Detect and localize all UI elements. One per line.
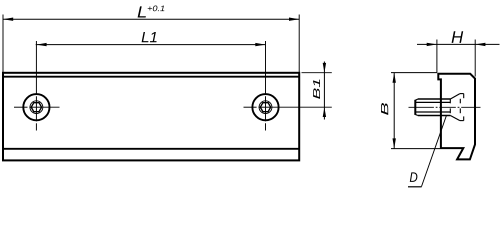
B extension line top [391,72,437,74]
top chamfer edge line [3,76,299,78]
screw head right face bottom segment [463,116,465,120]
L dimension line [3,18,299,20]
hole 2 hex socket [260,103,270,112]
H arrow right (outside, pointing left) [475,43,485,46]
L arrow left [3,18,13,21]
bottom step edge line [3,148,299,150]
B1 extension line top [302,72,332,74]
B arrow bottom (inside, pointing down) [393,138,396,148]
hex socket far wall top [459,99,461,104]
screw thread minor lines [415,101,450,103]
hole 1 vertical centerline / L1 extension [35,41,37,131]
D leader line [422,116,447,187]
L tolerance +0.1 [148,5,165,11]
L1 arrow left [36,43,46,46]
hole 2 vertical centerline / L1 extension [265,41,267,131]
B1 arrow bottom (outside, pointing up) [323,107,326,117]
H extension line left [436,40,438,73]
B1 arrow top (outside, pointing down) [323,63,326,73]
L extension line right [298,15,300,73]
countersink cone bottom [450,116,460,121]
screw tip end face [414,100,416,115]
hole 1 counterbore circle [23,94,49,120]
L1 arrow right [255,43,265,46]
D leader landing line [408,186,422,188]
hole 1 horizontal centerline [14,106,60,108]
screw tip chamfer top [415,99,418,100]
side view body profile [438,74,475,160]
hole 2 inner circle [259,101,272,114]
screw tip chamfer bottom [415,114,418,115]
screw thread major lines [418,98,451,100]
hex socket near wall bottom [449,108,451,113]
screw head right face top segment [463,94,465,99]
H dimension line [417,43,500,45]
H label [452,31,464,43]
hole 2 horizontal centerline extended right as B1 extension [244,106,332,108]
B arrow top (inside, pointing up) [393,73,396,83]
L label [138,6,146,17]
B dimension line [393,73,395,149]
screw head top edge [460,93,464,95]
L arrow right [289,18,299,21]
D label [410,172,418,181]
L1 dimension line [36,44,266,46]
L1 label [142,32,157,42]
bar outline front view [3,73,299,161]
hex socket near wall top [449,99,451,104]
screw head bottom edge [460,120,464,122]
hole 1 hex socket [31,103,41,112]
B1 label (rotated) [313,80,320,99]
hex socket far wall bottom [459,108,461,113]
H arrow left (outside, pointing right) [427,43,437,46]
H extension line right [474,40,476,77]
B1 dimension line [323,62,325,120]
countersink cone top [450,94,460,99]
screw centerline [409,106,481,108]
B label (rotated) [381,103,388,115]
hole 2 counterbore circle [252,94,278,120]
hole 1 inner circle [30,101,43,114]
L extension line left [2,15,4,73]
B extension line bottom [391,148,440,150]
